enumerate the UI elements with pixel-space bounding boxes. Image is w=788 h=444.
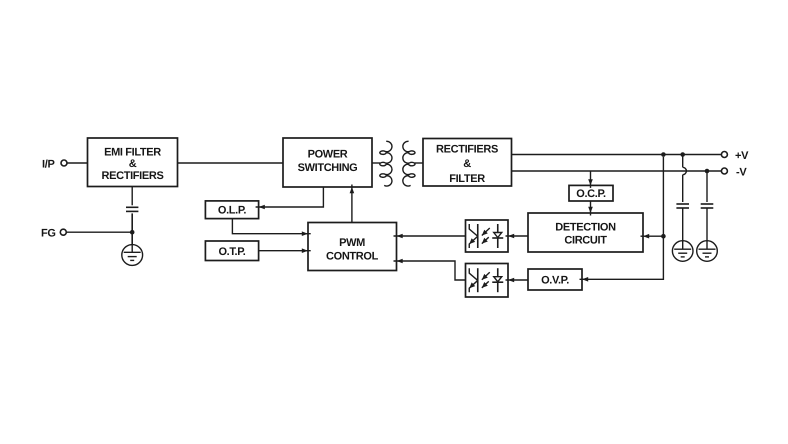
ground earth G3 (697, 241, 718, 262)
wire EMI bottom to capacitor C1 (131, 187, 133, 206)
wire O.T.P. to PWM control (arrow right) (259, 250, 311, 252)
wire -V rail (512, 170, 722, 172)
svg-text:+V: +V (735, 150, 749, 162)
wire capacitor C3 to ground G3 (706, 208, 708, 249)
input terminal I/P (61, 160, 67, 166)
optocoupler U1 (466, 220, 509, 252)
block DETECTION CIRCUIT (528, 213, 643, 252)
svg-text:O.L.P.: O.L.P. (218, 204, 247, 216)
svg-text:FILTER: FILTER (449, 173, 485, 185)
svg-text:CIRCUIT: CIRCUIT (564, 235, 607, 247)
svg-text:O.C.P.: O.C.P. (576, 188, 606, 200)
block POWER SWITCHING (283, 138, 372, 187)
capacitor C1 (126, 207, 138, 211)
block PWM CONTROL (308, 223, 397, 271)
svg-text:O.V.P.: O.V.P. (541, 275, 569, 287)
block EMI FILTER & RECTIFIERS (88, 138, 178, 187)
svg-text:CONTROL: CONTROL (326, 251, 379, 263)
wire optocoupler U2 to PWM (stepped, arrow left) (394, 261, 466, 280)
svg-text:DETECTION: DETECTION (555, 222, 616, 234)
block O.T.P. (205, 241, 258, 261)
block RECTIFIERS & FILTER (423, 139, 512, 187)
wire PWM control to power switching (arrow up) (351, 185, 353, 223)
wire junction to detection circuit (arrow left) (641, 235, 664, 237)
wire capacitor C2 from +V junction (with hop over -V) (682, 155, 684, 168)
wire secondary to rectifiers (415, 162, 424, 164)
wire detection to optocoupler U1 (arrow left) (506, 235, 529, 237)
block O.V.P. (528, 269, 582, 290)
wire capacitor C2 to ground G2 (682, 208, 684, 249)
wire capacitor C1 to ground (131, 213, 133, 244)
ground earth G2 (672, 241, 693, 262)
capacitor C3 (701, 204, 714, 208)
svg-text:POWER: POWER (308, 149, 348, 161)
wire O.V.P. to optocoupler U2 (arrow left) (506, 279, 529, 281)
node junction -V capacitor C3 (705, 169, 710, 174)
wire -V rail to O.C.P. (arrow down) (590, 171, 592, 188)
svg-text:SWITCHING: SWITCHING (298, 162, 358, 174)
transformer T1 primary winding (380, 141, 392, 186)
svg-text:FG: FG (41, 228, 56, 240)
wire O.L.P. to PWM control (arrow right) (232, 219, 310, 234)
wire power switching to transformer primary (372, 162, 380, 164)
svg-text:RECTIFIERS: RECTIFIERS (436, 144, 498, 156)
svg-text:I/P: I/P (42, 159, 55, 171)
svg-text:PWM: PWM (339, 237, 365, 249)
node FG junction (130, 230, 135, 235)
wire EMI to power switching (178, 162, 284, 164)
svg-text:RECTIFIERS: RECTIFIERS (102, 170, 164, 182)
wire capacitor C3 from -V junction (706, 171, 708, 202)
transformer T1 secondary winding (403, 141, 415, 186)
block O.C.P. (569, 185, 613, 201)
optocoupler U2 (466, 264, 509, 298)
svg-text:&: & (129, 158, 137, 170)
wire FG to junction (66, 231, 132, 233)
node junction detection feed (661, 234, 666, 239)
capacitor C2 (676, 204, 689, 208)
svg-text:-V: -V (736, 167, 747, 179)
wire O.C.P. to detection circuit (arrow down) (590, 201, 592, 216)
wire +V rail (512, 154, 722, 156)
terminal FG (60, 229, 66, 235)
ground earth G1 (122, 245, 143, 266)
svg-text:&: & (463, 158, 471, 170)
svg-text:O.T.P.: O.T.P. (218, 246, 245, 258)
wire I/P to EMI filter (67, 162, 87, 164)
block O.L.P. (205, 201, 258, 219)
wire optocoupler U1 to PWM (arrow left) (394, 235, 466, 237)
output terminal +V (721, 152, 727, 158)
wire power switching bottom to O.L.P. (arrow left) (256, 187, 324, 207)
output terminal -V (721, 168, 727, 174)
node junction +V detection feed (661, 152, 666, 157)
node junction +V capacitor C2 (680, 152, 685, 157)
svg-text:EMI FILTER: EMI FILTER (104, 146, 161, 158)
wire +V junction down to O.V.P. (arrow left) (580, 157, 664, 280)
